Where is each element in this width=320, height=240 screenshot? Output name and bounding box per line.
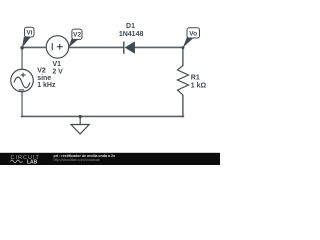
wire: diode D1 to node Vo corner <box>135 46 184 48</box>
svg-text:Vi: Vi <box>26 30 32 37</box>
svg-text:1 kΩ: 1 kΩ <box>191 83 207 90</box>
flag Vi <box>22 27 34 48</box>
svg-text:V2: V2 <box>73 32 81 39</box>
node dot Vo <box>182 46 185 49</box>
wire: V2 bottom to bottom rail <box>21 92 23 117</box>
wire: node Vo down to R1 top <box>182 47 184 65</box>
node dot Vi <box>20 46 24 50</box>
wire: R1 bottom to bottom rail <box>182 95 184 117</box>
ground <box>71 117 89 135</box>
svg-text:1 kHz: 1 kHz <box>37 82 56 89</box>
svg-text:sine: sine <box>37 75 51 82</box>
wire top-left: node Vi to V1 <box>22 46 47 48</box>
logo wave <box>11 160 23 163</box>
svg-text:http://circuitlab.com/c/cddcak: http://circuitlab.com/c/cddcak <box>54 158 100 162</box>
svg-text:2 V: 2 V <box>52 68 63 75</box>
svg-text:LAB: LAB <box>27 159 38 165</box>
svg-text:1N4148: 1N4148 <box>119 31 144 38</box>
wire: V1 to diode D1 <box>69 46 124 48</box>
watermark bar <box>0 153 220 165</box>
node dot ground <box>79 115 82 118</box>
svg-text:V1: V1 <box>53 61 62 68</box>
voltage source V1 <box>46 36 69 59</box>
AC source V2 <box>11 69 34 92</box>
svg-text:V2: V2 <box>37 67 46 74</box>
svg-text:R1: R1 <box>191 75 200 82</box>
wire: node Vi down to V2 top <box>21 47 23 69</box>
resistor R1 <box>178 66 189 96</box>
svg-text:Vo: Vo <box>189 30 197 37</box>
flag Vo <box>183 28 200 48</box>
flag V2 <box>68 29 82 47</box>
diode D1 <box>124 41 135 53</box>
wire: bottom rail <box>22 115 184 117</box>
svg-text:D1: D1 <box>126 23 135 30</box>
